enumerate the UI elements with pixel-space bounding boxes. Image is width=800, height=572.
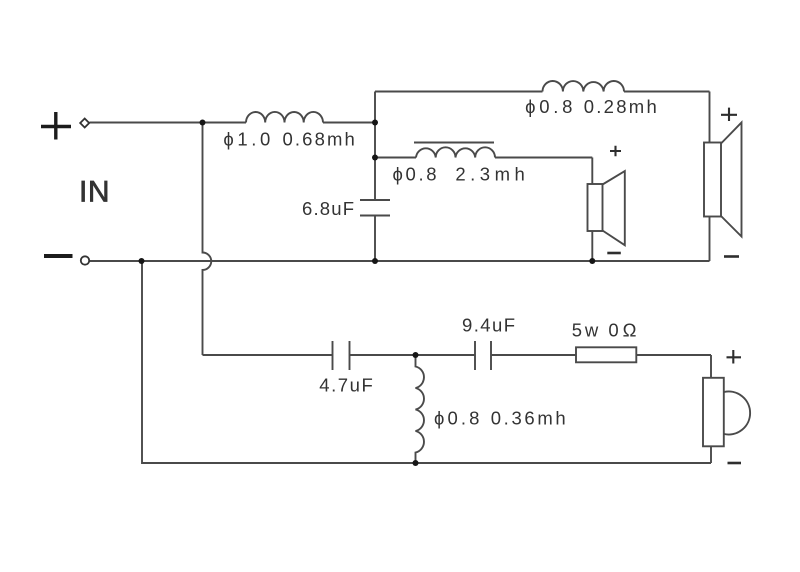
svg-text:4.7uF: 4.7uF bbox=[319, 375, 373, 396]
svg-text:9.4uF: 9.4uF bbox=[462, 315, 515, 336]
svg-text:ϕ0.8: ϕ0.8 bbox=[393, 164, 437, 185]
svg-text:5w: 5w bbox=[572, 320, 599, 341]
svg-text:ϕ0.8: ϕ0.8 bbox=[434, 408, 479, 429]
svg-text:IN: IN bbox=[79, 176, 110, 209]
svg-text:ϕ1.0: ϕ1.0 bbox=[223, 129, 270, 150]
svg-text:0Ω: 0Ω bbox=[608, 320, 636, 341]
svg-text:6.8uF: 6.8uF bbox=[302, 198, 354, 219]
svg-text:ϕ0.8: ϕ0.8 bbox=[525, 96, 572, 117]
